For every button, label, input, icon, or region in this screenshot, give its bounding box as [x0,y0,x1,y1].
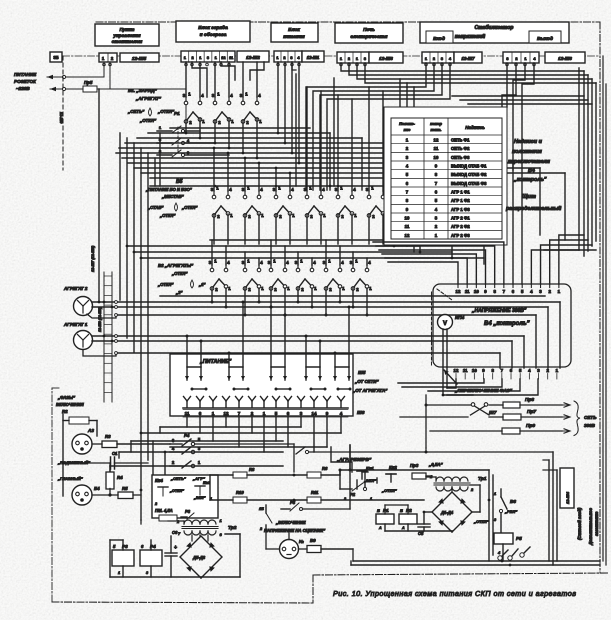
svg-text:С6: С6 [172,530,178,535]
svg-text:3: 3 [494,518,497,522]
svg-text:управления: управления [112,33,140,38]
svg-text:1: 1 [245,92,248,97]
svg-text:„СЕТЬ”: „СЕТЬ” [170,476,186,481]
bus mesh horizontals [170,127,310,129]
svg-text:14: 14 [311,411,317,416]
transformer Tr1 [434,477,470,491]
svg-text:Пр9: Пр9 [526,423,535,429]
svg-text:4: 4 [528,368,531,373]
switch unit at 345,197 [335,186,358,220]
svg-text:2: 2 [246,120,249,125]
svg-text:ПМ. 4,5А: ПМ. 4,5А [155,508,173,513]
svg-text:„0,5А”: „0,5А” [428,462,443,467]
svg-text:12: 12 [454,368,459,373]
svg-text:12-Ш3 (12-Ш2): 12-Ш3 (12-Ш2) [98,306,102,332]
wires strip5b vyhod down to table area [506,63,508,107]
svg-text:Пр8: Пр8 [525,397,534,403]
svg-text:В4 „контроль”: В4 „контроль” [484,321,530,327]
svg-text:Рис. 10. Упрощенная схема пит: Рис. 10. Упрощенная схема питания СКП от… [333,589,576,598]
fuse in Kn4 block [159,515,177,521]
svg-text:4: 4 [260,187,263,192]
svg-text:„ОТКЛ”: „ОТКЛ” [171,271,188,276]
svg-text:~220В: ~220В [16,86,30,91]
verticals x549-557 [548,460,550,561]
svg-text:„ОТКЛ”: „ОТКЛ” [473,519,489,524]
svg-text:2: 2 [310,214,313,219]
wires strip2 down to V1 pins [185,62,187,97]
svg-text:5: 5 [275,411,278,416]
svg-text:1: 1 [328,259,331,264]
svg-text:Р5: Р5 [516,536,522,541]
svg-text:4: 4 [530,289,533,294]
extra top-right bundle horizontals [452,95,584,97]
svg-text:„СЕТЬ”: „СЕТЬ” [127,109,145,114]
svg-text:Пр5: Пр5 [84,80,93,85]
Kn4 control block [152,475,218,518]
svg-text:1: 1 [214,259,217,264]
svg-text:„2”: „2” [175,290,183,295]
svg-text:„ОТКЛ”: „ОТКЛ” [169,489,184,493]
svg-text:12-Ш7 (12-Ш2): 12-Ш7 (12-Ш2) [91,245,95,272]
svg-text:2: 2 [341,214,344,219]
svg-text:4: 4 [258,93,261,98]
svg-text:„1”: „1” [198,282,206,287]
svg-text:СЕТЬ Ф3: СЕТЬ Ф3 [451,155,470,160]
svg-text:6: 6 [512,289,515,294]
connector B4 [72,485,92,505]
svg-text:12-Ш9: 12-Ш9 [59,112,63,124]
svg-text:Дополнительное: Дополнительное [588,507,593,546]
svg-text:Б: Б [377,508,380,513]
bottom long bus to right [353,560,600,562]
mech link dashed [437,289,452,300]
svg-text:1: 1 [188,92,191,97]
svg-text:„СТАБ”: „СТАБ” [147,205,164,210]
svg-text:конт.: конт. [431,128,442,132]
svg-text:Блок: Блок [288,27,300,33]
terminal bar [183,407,348,409]
relay P4 contact 4-3 [170,451,182,453]
svg-text:10: 10 [405,216,410,221]
wire R3 to P4 contact [92,443,102,445]
svg-text:12: 12 [223,411,229,416]
svg-text:R10: R10 [236,490,244,495]
svg-text:9: 9 [326,411,329,416]
long horizontal above V5 [150,185,408,187]
svg-text:Печь: Печь [363,27,375,33]
svg-text:1: 1 [263,411,266,416]
svg-text:4: 4 [227,260,230,265]
svg-text:АГРЕГАТ 1: АГРЕГАТ 1 [63,322,88,327]
svg-text:Кн4: Кн4 [155,478,163,483]
relay box P5 [494,533,513,544]
svg-text:2: 2 [259,527,263,531]
svg-text:АГР 1 Ф2: АГР 1 Ф2 [451,198,470,203]
wires pitanie area to bottom mid [340,433,342,452]
svg-text:4: 4 [187,138,190,143]
staple contactor symbols [185,367,203,380]
svg-text:В2 „АГРЕГАТЫ”: В2 „АГРЕГАТЫ” [158,263,194,268]
svg-text:напряжений: напряжений [455,33,485,40]
svg-text:„ОТКЛ”: „ОТКЛ” [157,109,175,114]
resistor R2 [69,417,89,424]
svg-text:7: 7 [238,411,241,416]
svg-text:2: 2 [217,214,220,219]
unit box: punkt upravleniya otopitelem [95,24,159,46]
svg-text:„ОТКЛ”: „ОТКЛ” [159,213,176,218]
wire 220V lower with arrow [50,88,186,90]
V2 bottom drops to agregat bus [211,288,213,302]
diode bridge D5-D8 [180,536,222,578]
svg-text:Пр7: Пр7 [527,409,536,415]
svg-text:АГРЕГАТ 2: АГРЕГАТ 2 [63,286,88,291]
wire 220V upper with arrow [47,76,104,78]
svg-text:1: 1 [212,411,215,416]
terminal box 3B [50,52,62,62]
svg-text:Кн2: Кн2 [389,465,397,470]
phase wire right drops to V4 block [559,302,561,368]
svg-text:11: 11 [405,224,410,229]
svg-text:„ПЕРЕКЛЮЧЕНИЕ ФАЗ”: „ПЕРЕКЛЮЧЕНИЕ ФАЗ” [454,388,513,394]
svg-text:2: 2 [274,287,277,292]
svg-text:СЕТЬ: СЕТЬ [584,415,597,420]
switch unit at 283,197 [273,186,296,220]
svg-text:ПИТАНИЕ: ПИТАНИЕ [14,72,37,77]
wires fuse row [426,404,471,406]
frame border bottom-right dash-dot [313,573,608,575]
contact 1B-2 right of Kn4 [265,505,267,513]
svg-text:„АГРЕГАТ”: „АГРЕГАТ” [135,96,162,101]
wires bridge connections [451,487,453,492]
button Kn4 T symbol [158,486,168,488]
svg-text:3: 3 [300,411,303,416]
relay P1 contact 5-6 [157,154,172,156]
svg-text:R3: R3 [105,434,111,439]
svg-text:8: 8 [493,289,496,294]
svg-text:2: 2 [356,287,359,292]
svg-text:4: 4 [497,551,501,555]
svg-text:11: 11 [434,146,439,151]
resistor R3 [102,441,117,448]
svg-text:Р1: Р1 [174,111,180,116]
resistor R-V9 [307,546,321,553]
relay box P2 [399,514,417,524]
panel boundary dash-dot at terminal level [50,55,598,57]
resistor R5 [118,492,133,499]
svg-text:1: 1 [261,213,264,218]
svg-text:„контроль”: „контроль” [513,177,547,183]
pitanie block box [170,354,353,416]
svg-text:1: 1 [231,119,234,124]
frame border top dash-dot [96,21,600,23]
svg-text:Р4: Р4 [184,433,190,438]
svg-text:1: 1 [247,259,250,264]
svg-text:2: 2 [189,120,192,125]
svg-text:12: 12 [456,289,461,294]
svg-text:ВЫХОД СТАБ Ф2: ВЫХОД СТАБ Ф2 [451,172,487,177]
svg-text:R11: R11 [311,490,319,495]
mid long verticals from top bundle [399,79,401,240]
switch Sh7 crossing blades [471,403,475,407]
frame border left dash-dot [51,388,53,602]
resistor R10 [233,497,247,503]
svg-text:2: 2 [372,214,375,219]
resistor R4 vertical [109,463,111,472]
svg-text:6: 6 [510,368,513,373]
svg-text:1: 1 [230,213,233,218]
svg-text:электрическая: электрическая [351,35,388,40]
svg-text:R4: R4 [117,475,123,480]
svg-text:10: 10 [434,155,439,160]
svg-text:12: 12 [434,137,439,142]
wires V1 bottoms down to bus mesh [185,120,187,133]
svg-text:5: 5 [113,544,116,549]
relay box P3 [112,550,134,566]
switch unit at 376,197 [366,186,389,220]
voltmeter IP4 [438,315,453,330]
wires above V4 pins staircase left [388,262,458,284]
vertical feed left of Sh7 [425,395,427,448]
terminal strip 12-Sh8 [337,52,369,63]
wire kn4 to tr2 [168,520,184,522]
svg-text:ние: ние [404,128,411,132]
tr2 secondary to bridge [199,535,201,536]
svg-text:АГР 2 Ф1: АГР 2 Ф1 [451,216,470,221]
svg-text:5: 5 [519,368,522,373]
svg-text:„ОТКЛ”: „ОТКЛ” [181,205,198,210]
svg-text:Блок заряда: Блок заряда [198,25,228,31]
agregat 2 phase wires [92,301,560,303]
svg-text:номер: номер [430,122,443,126]
svg-text:АГР 2 Ф3: АГР 2 Ф3 [451,233,470,238]
svg-text:СЕТЬ Ф2: СЕТЬ Ф2 [451,146,470,151]
svg-text:„НАПРЯЖЕНИЕ 380В”: „НАПРЯЖЕНИЕ 380В” [471,308,527,314]
svg-text:12-Ш4: 12-Ш4 [565,491,570,504]
svg-text:6: 6 [141,544,144,549]
svg-text:2: 2 [248,287,251,292]
wires to V9 [265,532,267,549]
wires V4 bottom to phase area [443,394,473,396]
switch unit at 221,197 [211,186,234,220]
svg-text:А: А [378,526,382,530]
svg-text:Д1-Д4: Д1-Д4 [440,510,454,515]
svg-text:R6: R6 [322,466,328,471]
svg-text:1: 1 [355,259,358,264]
fuse Pr3 [412,473,426,479]
connector V9 [280,540,299,559]
switch unit at 250,103 [240,92,263,126]
relay box P4 [140,550,162,566]
svg-text:„ОТ СЕТИ”: „ОТ СЕТИ” [354,379,379,384]
svg-text:Щит: Щит [522,194,536,200]
svg-text:(Силовой ввод): (Силовой ввод) [577,507,582,540]
switch unit at 219,270 [209,259,232,293]
table of switch positions [391,118,502,239]
switch unit at 222,103 [212,92,235,126]
svg-text:4: 4 [353,187,356,192]
svg-text:Р2: Р2 [350,492,356,497]
svg-text:4: 4 [260,260,263,265]
fuse Pr5 [83,86,97,92]
unit box: blok pitaniya [271,23,318,42]
svg-text:4: 4 [313,260,316,265]
svg-text:12-Ш2: 12-Ш2 [246,55,260,60]
svg-text:„ПИТАНИЕ”: „ПИТАНИЕ” [199,359,232,365]
svg-text:АГР 1 Ф1: АГР 1 Ф1 [451,189,470,194]
svg-text:11: 11 [465,289,470,294]
svg-text:заземление: заземление [594,511,599,536]
svg-text:1: 1 [292,213,295,218]
svg-text:Выход: Выход [537,36,553,42]
svg-text:и обогрева: и обогрева [200,31,227,38]
svg-text:Пункт: Пункт [119,27,134,32]
svg-text:4: 4 [229,187,232,192]
set 380V arrows and brace [562,403,570,407]
connector strip 12-Sh3 vertical [103,272,105,402]
svg-text:7: 7 [178,531,181,536]
jog wires under strip2 [192,62,207,97]
switch unit at 314,197 [304,186,327,220]
wires R rows [210,474,233,476]
svg-text:12: 12 [405,233,410,238]
svg-text:Тр2: Тр2 [228,525,237,531]
svg-text:Р3: Р3 [185,509,191,514]
collector horizontals below pitanie [160,426,301,428]
svg-text:4: 4 [291,187,294,192]
svg-text:2: 2 [329,287,332,292]
frame border bottom jog [312,575,314,603]
svg-text:1: 1 [558,289,561,294]
resistor R11 [307,497,321,503]
relay box P1 [376,514,394,524]
svg-text:Надписи и: Надписи и [514,139,543,145]
svg-text:9: 9 [484,289,487,294]
svg-text:2: 2 [248,214,251,219]
switch unit at 333,270 [323,259,346,293]
fuse Pr7 [503,414,521,420]
svg-text:1: 1 [217,92,220,97]
button Kn1 [357,470,367,472]
svg-text:Пр3: Пр3 [410,463,419,468]
svg-text:АГР 2 Ф2: АГР 2 Ф2 [451,224,470,229]
wire fuse to tr1 [426,476,436,478]
relay P1 contact 1-2 [157,130,172,132]
svg-text:3: 3 [539,289,542,294]
svg-text:9: 9 [482,368,485,373]
svg-text:1: 1 [220,518,222,523]
svg-text:10: 10 [472,368,477,373]
svg-text:НАПРЯЖЕНИЕ НА СЦЕПНИК”: НАПРЯЖЕНИЕ НА СЦЕПНИК” [264,528,326,533]
svg-text:7: 7 [503,289,506,294]
svg-text:1: 1 [228,286,231,291]
svg-text:1: 1 [300,259,303,264]
svg-text:4: 4 [322,187,325,192]
junction dots [185,132,188,135]
button Kn3 T symbol [195,485,205,487]
svg-text:2: 2 [218,120,221,125]
svg-text:А3: А3 [87,428,94,433]
wire drop from strip 12-Sh5 [103,62,105,77]
terminal strip 12-Sh1 [274,51,302,62]
svg-text:Р1: Р1 [383,508,389,513]
svg-text:3: 3 [537,368,540,373]
wires into V5 top pins from mesh [213,148,215,191]
generator agregat 2 circle [74,297,93,316]
svg-text:4: 4 [368,260,371,265]
dashed cable line 12-Sh9 [62,56,64,170]
fork contacts above terminal bar [186,401,188,408]
svg-text:ИП4: ИП4 [455,315,465,320]
svg-text:1: 1 [314,286,317,291]
frame border bottom-left dash-dot [52,602,313,603]
svg-text:8: 8 [491,368,494,373]
svg-text:„АГР. РЕЗЕРВ”: „АГР. РЕЗЕРВ” [336,457,372,462]
svg-text:1Б: 1Б [259,507,264,511]
svg-text:1: 1 [118,571,120,575]
svg-text:R2: R2 [62,409,68,414]
svg-text:2: 2 [215,287,218,292]
switch unit at 278,270 [268,259,291,293]
vertical feeds from pitanie to agr rezerv [331,447,352,472]
terminal strip 12-Sh5 [99,53,117,62]
svg-text:отопителем: отопителем [112,39,143,44]
svg-text:В6: В6 [510,499,516,504]
lamp symbol V1 [149,108,152,116]
svg-text:ВКЛЮЧЕНИЯ: ВКЛЮЧЕНИЯ [56,402,85,407]
svg-text:„ОТКЛ”: „ОТКЛ” [381,488,397,493]
V4 switch lever arrow [444,370,457,384]
three phase drop verticals to bottom [140,433,142,520]
svg-text:4: 4 [201,93,204,98]
svg-text:Положе-: Положе- [399,122,416,126]
resistor R6 [307,472,321,478]
connector A3 [72,434,92,454]
unit box: blok zaryada i obogreva [176,21,250,42]
svg-text:питания: питания [283,35,305,40]
svg-text:В5: В5 [176,179,183,185]
svg-text:1: 1 [273,259,276,264]
wire 220V lower going down [185,89,187,130]
svg-text:5: 5 [521,289,524,294]
svg-text:Ш6: Ш6 [357,410,365,416]
svg-text:6: 6 [287,411,290,416]
svg-text:АГР 1 Ф3: АГР 1 Ф3 [451,207,470,212]
svg-text:1: 1 [261,286,264,291]
svg-text:1: 1 [494,492,496,496]
svg-text:1: 1 [259,119,262,124]
svg-text:№: № [299,539,304,544]
svg-text:1: 1 [202,119,205,124]
svg-text:1: 1 [198,460,201,465]
svg-text:R8: R8 [249,467,255,472]
vertical from P4 row to R8 row [293,444,295,472]
svg-text:2: 2 [301,287,304,292]
svg-text:ВЫХОД СТАБ Ф3: ВЫХОД СТАБ Ф3 [451,181,487,186]
capacitor C1 [110,457,112,469]
table enclosure box [384,107,507,245]
fuse Pr9 [502,428,520,434]
generator agregat 1 circle [74,331,93,350]
wires strip5a stabilizator vhod to left then down [306,63,426,190]
switch V6 [500,489,502,497]
svg-text:Вход: Вход [433,36,445,42]
switch unit at 252,270 [242,259,265,293]
svg-text:„ФАЗЫ”: „ФАЗЫ” [57,395,76,400]
svg-text:7: 7 [501,368,504,373]
relay P1 contact 3-4 [157,142,172,144]
meter wires down [442,329,444,395]
svg-text:+: + [174,545,177,551]
